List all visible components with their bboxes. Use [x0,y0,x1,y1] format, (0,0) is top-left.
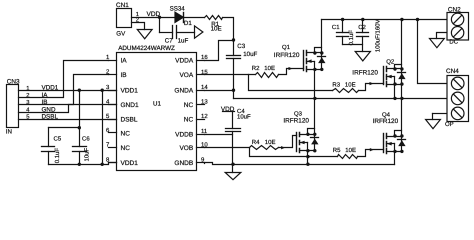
svg-text:10uF: 10uF [243,51,257,58]
svg-text:C2: C2 [358,24,366,31]
wire Q2 diode down to output line [401,85,403,99]
svg-text:C7: C7 [165,38,173,45]
transistor Q2 junction dots [393,67,396,70]
svg-text:Q2: Q2 [386,59,395,66]
node Q2 output dots [393,97,396,100]
transistor Q1 channel segments [306,51,308,56]
svg-text:ADUM4224WARWZ: ADUM4224WARWZ [118,45,175,52]
svg-text:GNDB: GNDB [174,160,193,167]
svg-text:VDD1: VDD1 [42,85,59,92]
U1 pin 16 stub [197,60,205,62]
capacitor C6 [73,146,87,148]
wire VOB branch to R5 feed [250,148,338,157]
transistor Q1 body arrow [307,61,315,63]
svg-text:Q3: Q3 [294,110,303,117]
svg-text:CN2: CN2 [448,6,461,13]
svg-text:IB: IB [121,72,127,79]
svg-text:0.1uF: 0.1uF [348,30,355,46]
svg-text:GV: GV [116,31,126,38]
wire Q4 source to GNDB [394,152,396,165]
wire Q2 drain to rail [401,20,403,69]
wire VDD to C7 [159,18,161,33]
transistor Q1 source lead [307,69,322,71]
connector CN2 [447,13,469,41]
transistor Q4 channel segments [386,134,388,139]
svg-text:DC: DC [449,38,458,45]
svg-text:0.1uF: 0.1uF [54,148,61,164]
node Q3 source dot on GNDB [306,163,309,166]
wire VDD1 riser to U1 pin8 [102,91,104,165]
U1 pin 12 stub [197,119,205,121]
transistor Q3 gate bar [296,133,298,152]
wire U1 pin16 VDDA to bus [205,41,234,61]
transistor Q2 body arrow [387,76,395,78]
resistor R3 [333,89,359,93]
transistor Q4 junction dots [393,134,396,137]
svg-text:10E: 10E [264,65,275,72]
transistor Q1 drain lead [307,52,322,54]
transistor Q4 gate bar [383,134,385,153]
svg-text:VDDB: VDDB [175,131,193,138]
ground arrow right of C7 [195,26,203,38]
node GNDB ground dot [231,163,234,166]
resistor R2 [256,73,279,78]
svg-text:R2: R2 [252,65,260,72]
svg-text:OP: OP [445,121,454,128]
ground symbol GNDB [232,165,234,173]
node C1 rail dot [341,18,344,21]
svg-text:D1: D1 [184,20,192,27]
svg-text:C3: C3 [237,43,245,50]
svg-text:16: 16 [201,54,208,61]
node VDD1 riser dot for capacitors [78,89,81,92]
wire Q1 source down to output A [314,70,316,99]
diode D1 SS34 [175,12,183,22]
svg-text:NC: NC [184,102,194,109]
node VDD1 pin8 riser dot [101,89,104,92]
transistor Q2 gate bar [383,67,385,85]
node Q2 drain rail dot [400,18,403,21]
svg-text:IRFR120: IRFR120 [352,70,378,77]
svg-text:Q1: Q1 [282,44,291,51]
U1 pin 11 stub [197,134,205,136]
svg-text:13: 13 [201,99,208,106]
capacitor C5 [48,128,50,147]
node pin8 riser bottom dot [101,163,104,166]
svg-text:IB: IB [42,99,48,106]
svg-text:IA: IA [42,92,49,99]
wire R3 to Q2 gate [359,84,384,91]
svg-text:GNDA: GNDA [174,88,193,95]
transistor Q4 body arrow [387,143,395,145]
U1 pin 5 stub [109,119,117,121]
transistor Q2 drain lead [387,68,402,70]
U1 pin 15 stub [197,74,205,76]
svg-text:NC: NC [121,145,131,152]
wire Q2 source down to output line [394,85,396,99]
node VDDA bus junction dot [232,38,235,41]
transistor Q3 junction dots [306,133,309,136]
wire R4 to Q3 gate [279,136,297,148]
transistor Q2 body diode [401,69,403,85]
svg-text:12: 12 [201,113,208,120]
resistor R4 [250,146,279,150]
capacitor C3 [227,55,241,57]
svg-text:IN: IN [6,128,12,135]
svg-text:IA: IA [121,57,128,64]
connector CN1 [117,9,132,28]
wire U1 pin9 GNDB rail [204,163,206,165]
svg-text:1uF: 1uF [178,38,189,45]
svg-text:CN4: CN4 [446,68,459,75]
svg-text:10E: 10E [345,82,356,89]
wire CN3 pin3 IB to U1 pin2 [19,75,109,105]
wire U1 pin10 VOB to R4 [205,147,250,149]
svg-text:VDD1: VDD1 [121,160,139,167]
U1 pin 3 stub [109,90,117,92]
node C2 rail dot [361,18,364,21]
wire CN1 pin1 to VDD node [132,17,176,19]
node CN4 feed rail dot [416,18,419,21]
U1 pin 13 stub [197,104,205,106]
ground symbol at CN4 [426,120,441,129]
node capacitor rail dot [78,126,81,129]
svg-text:CN3: CN3 [7,78,20,85]
wire VDD1 riser to C6 [79,91,81,147]
node Q1 source output dot [313,97,316,100]
transistor Q3 drain lead [300,134,315,136]
node C6 bottom dot [78,163,81,166]
svg-text:IRFR120: IRFR120 [373,118,399,125]
U1 pin 10 stub [197,147,205,149]
svg-text:R5: R5 [333,147,341,154]
svg-text:GND: GND [42,106,56,113]
capacitor C2 [362,20,364,33]
svg-text:10E: 10E [345,147,356,154]
resistor R5 [338,155,358,159]
wire capacitor top rail [49,127,80,129]
transistor Q4 source lead [387,151,402,153]
wire bottom rail to U1 pin8 [49,163,117,165]
arrow into Q4 gate [370,148,374,151]
transistor Q1 junction dots [313,51,316,54]
wire CN3 pin2 IA to U1 pin1 [19,61,109,98]
connector CN4 [447,76,469,122]
svg-text:C5: C5 [54,135,62,142]
svg-text:IRFR120: IRFR120 [274,52,300,59]
connector CN3 [7,85,19,128]
wire U1 pin14 GNDA [205,90,234,92]
transistor Q3 body arrow [300,142,308,144]
wire Q3 drain from output A [314,99,316,135]
wire VOA branch to R3 feed [249,75,333,91]
wire Q3 source to GNDB [307,151,309,165]
svg-text:10E: 10E [211,26,222,33]
svg-text:NC: NC [184,117,194,124]
transistor Q3 source lead [300,150,315,152]
transistor Q4 drain lead [387,136,402,138]
U1 pin 14 stub [197,90,205,92]
U1 pin 7 stub [109,147,117,149]
arrow into Q2 gate [370,82,374,85]
wire Q1 drain to rail [321,20,323,53]
svg-text:DSBL: DSBL [121,117,138,124]
U1 pin 1 stub [109,60,117,62]
U1 pin 2 stub [109,74,117,76]
node VDD junction dot [158,16,161,19]
svg-text:DSBL: DSBL [42,113,59,120]
svg-text:10E: 10E [265,139,276,146]
node GNDA junction dot [232,89,235,92]
transistor Q1 body diode [321,53,323,70]
U1 pin 8 stub [109,162,117,164]
svg-text:GND1: GND1 [121,102,139,109]
wire output line to CN4 pin2 [234,98,447,100]
svg-text:CN1: CN1 [116,2,129,9]
svg-text:10uF: 10uF [84,147,91,161]
arrow after R4 [281,146,285,149]
wire CN3 pin5 DSBL to U1 pin5 [19,119,117,121]
wire D1 to R1 [184,17,205,19]
U1 pin 9 stub [197,162,205,164]
transistor Q2 source lead [387,84,402,86]
capacitor C1 [342,20,344,33]
node Q3 source crossing dot [306,155,309,158]
op-amp U1 ADUM4224WARWZ body [117,53,197,171]
wire C3 to GNDA node [233,59,235,91]
U1 pin 4 stub [109,104,117,106]
transistor Q3 body diode [314,135,316,151]
wire CN2 pin2 to ground [437,33,447,39]
svg-text:VDD1: VDD1 [121,88,139,95]
svg-text:VDDA: VDDA [175,57,194,64]
svg-text:C6: C6 [82,135,90,142]
wire GNDA jog down [233,91,235,99]
wire Q4 drain from output line [401,99,403,137]
wire U1 pin15 VOA to R2 [205,74,256,76]
wire CN1 pin2 to ground [132,23,145,30]
svg-text:C1: C1 [332,24,340,31]
svg-text:SS34: SS34 [170,6,186,13]
svg-text:R4: R4 [252,139,260,146]
svg-text:U1: U1 [153,101,161,108]
resistor R1 [205,16,223,20]
svg-text:R3: R3 [332,82,340,89]
wire CN4 pin3 to ground [433,113,447,115]
wire U1 pin11 VDDB to VDD riser [205,134,233,136]
ground symbol below C1 C2 [355,52,370,61]
U1 pin 6 stub [109,132,117,134]
transistor Q4 body diode [401,137,403,152]
svg-text:IRFR120: IRFR120 [283,118,309,125]
transistor Q3 channel segments [299,133,301,137]
capacitor C4 [232,112,234,129]
svg-text:VOB: VOB [179,145,193,152]
svg-text:VOA: VOA [179,72,193,79]
wire R5 to Q4 gate [358,150,384,157]
ground symbol at CN2 [430,39,445,48]
svg-text:10uF: 10uF [237,113,251,120]
svg-text:100uF/160V: 100uF/160V [374,19,381,52]
wire rail to CN4 pin1 [418,20,447,84]
arrow into Q1 gate [289,67,293,70]
wire DC bus top rail [322,19,447,21]
svg-text:NC: NC [121,130,131,137]
transistor Q1 gate bar [303,51,305,71]
transistor Q2 channel segments [386,67,388,72]
wire R1 to VDDA bus [223,18,234,41]
wire CN3 pin4 GND to U1 pin4 [19,105,117,113]
wire R2 to Q1 gate [279,69,304,75]
capacitor C7 [160,32,173,34]
wire CN3 pin1 VDD1 to U1 pin3 [19,90,117,92]
wire bus to C3 [233,41,235,56]
ground symbol at CN1 [137,30,152,39]
